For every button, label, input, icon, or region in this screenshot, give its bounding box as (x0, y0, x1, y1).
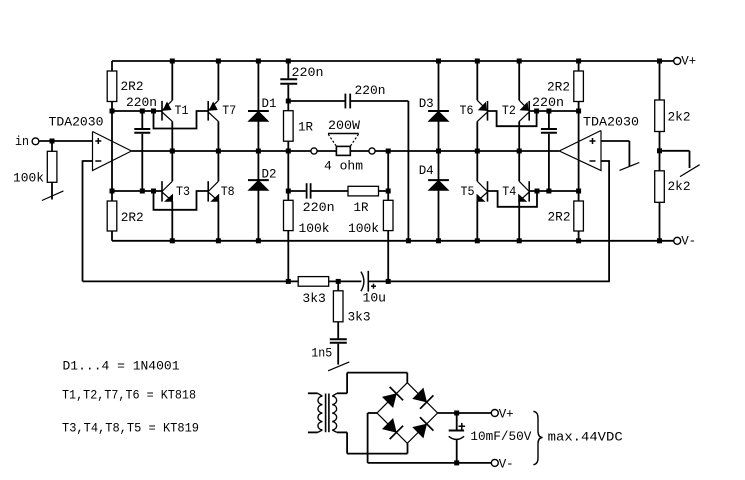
bridge diode lower-left (383, 419, 403, 439)
brace max voltage (533, 411, 622, 464)
svg-text:200W: 200W (328, 118, 360, 133)
wire zobel line (288, 100, 408, 102)
node j9 (576, 109, 581, 114)
wire feedback row (83, 280, 610, 282)
transformer TR1 core (326, 394, 329, 433)
resistor 2R2 bottom-left (107, 191, 144, 241)
op-amp U1 TDA2030 (49, 115, 132, 171)
ground slash 2k2 (680, 165, 700, 177)
transistor T1 (162, 61, 189, 151)
wire upper base row left (112, 110, 162, 112)
wire V+ top rail (112, 60, 674, 62)
transistor T4 (502, 151, 529, 241)
node V- terminal (674, 234, 697, 249)
svg-text:T8: T8 (221, 184, 235, 199)
svg-text:D2: D2 (262, 166, 277, 181)
svg-text:2R2: 2R2 (547, 80, 570, 95)
svg-text:220n: 220n (532, 95, 564, 110)
node fb j3 (386, 279, 391, 284)
node j11 (546, 189, 551, 194)
wire U2 pin column (578, 111, 580, 191)
svg-text:T1: T1 (175, 103, 189, 118)
node fb j1 (286, 279, 291, 284)
wire T7 base route (154, 111, 209, 129)
node T4 emitter junction (517, 238, 522, 243)
svg-text:220n: 220n (303, 200, 335, 215)
wire input to op-amp (39, 140, 92, 142)
wire V- bottom rail (112, 240, 674, 242)
svg-text:T1,T2,T7,T6 = KT818: T1,T2,T7,T6 = KT818 (62, 387, 196, 402)
svg-text:2R2: 2R2 (548, 210, 571, 225)
resistor 100k left (284, 200, 330, 281)
node input junction (50, 139, 55, 144)
svg-text:10mF/50V: 10mF/50V (470, 429, 531, 444)
node cap top junction (286, 59, 291, 64)
svg-text:1R: 1R (354, 200, 369, 215)
node j8 (546, 109, 551, 114)
wire secondary bottom to bridge (347, 432, 407, 453)
transformer TR1 secondary (332, 393, 347, 432)
node T8 emitter junction (216, 238, 221, 243)
node PSU minus junction (454, 460, 459, 465)
bridge diode lower-right (413, 417, 433, 437)
node T1 emitter junction (170, 59, 175, 64)
svg-text:2k2: 2k2 (668, 179, 691, 194)
svg-text:D3: D3 (419, 96, 434, 111)
node in terminal (15, 134, 39, 149)
svg-text:1n5: 1n5 (311, 346, 332, 361)
capacitor 220n zobel (345, 83, 385, 108)
resistor 1R left (284, 101, 314, 151)
svg-text:3k3: 3k3 (302, 291, 326, 306)
svg-text:V-: V- (681, 234, 696, 249)
ground slash input (42, 191, 64, 201)
capacitor 220n left (126, 95, 157, 191)
svg-text:4 ohm: 4 ohm (324, 158, 363, 173)
svg-text:T2: T2 (502, 103, 516, 118)
wire zobel down column (407, 101, 409, 241)
svg-text:1R: 1R (298, 120, 313, 135)
wire D3-D4 column (438, 61, 440, 241)
node D4 bottom junction (436, 238, 441, 243)
svg-text:100k: 100k (348, 221, 379, 236)
wire lower zobel row (288, 190, 388, 192)
capacitor 10mF/50V (449, 413, 532, 463)
speaker LS1 200W 4ohm (324, 118, 363, 173)
svg-text:2R2: 2R2 (121, 210, 144, 225)
diode D2 (248, 166, 277, 190)
node D1-D2 mid junction (256, 149, 261, 154)
node j4 (110, 189, 115, 194)
wire U1 inverting feedback (83, 160, 93, 281)
node speaker terminal left (311, 148, 317, 154)
ground slash 1n5 (328, 362, 349, 371)
node 100k-left top junction (286, 189, 291, 194)
node 1R bottom junction (286, 149, 291, 154)
node j10 (535, 189, 540, 194)
node T1 collector junction (170, 149, 175, 154)
svg-text:T5: T5 (461, 184, 475, 199)
transistor T2 (502, 61, 529, 151)
bridge rectifier diamond (377, 383, 438, 444)
node PSU plus junction (454, 411, 459, 416)
node PSU V+ terminal (491, 406, 513, 421)
node zobel left junction (286, 99, 291, 104)
node fb j2 (336, 279, 341, 284)
label pnp legend (62, 387, 196, 402)
node j2 (140, 109, 145, 114)
node V+ terminal (674, 54, 697, 69)
svg-text:D1...4 = 1N4001: D1...4 = 1N4001 (63, 359, 180, 374)
node T2 collector junction (517, 149, 522, 154)
svg-text:max.44VDC: max.44VDC (548, 429, 623, 444)
wire 100k-right column (387, 151, 389, 281)
node j5 (140, 189, 145, 194)
svg-text:220n: 220n (292, 65, 324, 80)
transistor T6 (460, 61, 488, 151)
capacitor 220n right (532, 95, 564, 191)
node speaker terminal right (369, 148, 375, 154)
capacitor 220n top-mid (280, 61, 323, 101)
node 100k-right top junction (386, 149, 391, 154)
svg-text:220n: 220n (355, 83, 386, 98)
node 2R2 TR top junction (576, 59, 581, 64)
resistor 3k3 horizontal (298, 277, 329, 306)
svg-text:V-: V- (499, 456, 514, 471)
capacitor 1n5 (311, 339, 347, 364)
node T7 emitter junction (216, 59, 221, 64)
wire lower base row left (112, 190, 162, 192)
svg-text:2R2: 2R2 (121, 79, 144, 94)
svg-text:T6: T6 (460, 103, 474, 118)
node 1R right junction (386, 189, 391, 194)
svg-text:T3: T3 (176, 184, 190, 199)
node D1 top junction (256, 59, 261, 64)
wire U1 pin column (111, 111, 113, 191)
node T7 collector junction (216, 149, 221, 154)
wire T6 base route (488, 111, 537, 126)
node PSU V- terminal (491, 456, 513, 471)
node j1 (110, 109, 115, 114)
svg-text:100k: 100k (13, 171, 44, 186)
resistor 100k right (348, 200, 393, 236)
capacitor 220n lower (303, 183, 335, 215)
capacitor 10u (361, 271, 386, 306)
node T6 collector junction (475, 149, 480, 154)
transistor T5 (461, 151, 488, 241)
svg-text:T7: T7 (222, 103, 236, 118)
node j3 (151, 109, 156, 114)
svg-text:T4: T4 (502, 184, 516, 199)
svg-text:T3,T4,T8,T5 = KT819: T3,T4,T8,T5 = KT819 (62, 420, 199, 435)
svg-text:D1: D1 (262, 96, 277, 111)
svg-text:100k: 100k (299, 221, 330, 236)
diode D3 (419, 96, 449, 121)
ground slash U2 (620, 163, 640, 171)
wire bridge minus (368, 413, 493, 463)
node j7 (534, 109, 539, 114)
resistor 2R2 top-right (547, 61, 583, 111)
resistor 3k3 vertical (333, 281, 370, 338)
node 2k2 top junction (657, 59, 662, 64)
diode D1 (248, 96, 277, 121)
wire upper base row right (529, 110, 578, 112)
label npn legend (62, 420, 199, 435)
svg-text:10u: 10u (363, 291, 387, 306)
svg-text:D4: D4 (419, 163, 434, 178)
bridge diode upper-right (413, 389, 433, 409)
resistor 1R lower (348, 186, 379, 215)
svg-text:V+: V+ (681, 54, 696, 69)
diode D4 (419, 163, 449, 190)
node D2 bottom junction (256, 238, 261, 243)
resistor 2k2 bottom (655, 171, 691, 241)
node 2k2 bottom junction (657, 238, 662, 243)
svg-text:TDA2030: TDA2030 (49, 115, 104, 130)
node T6 emitter junction (475, 59, 480, 64)
resistor 2R2 bottom-right (548, 191, 584, 241)
node T2 emitter junction (517, 59, 522, 64)
wire bridge plus (438, 412, 493, 414)
label diodes legend (63, 359, 180, 374)
wire lower base row right (529, 190, 578, 192)
node D3 top junction (436, 59, 441, 64)
wire U2 inverting feedback (601, 160, 609, 281)
bridge diode upper-left (383, 387, 403, 407)
svg-text:V+: V+ (499, 406, 514, 421)
wire D1-D2 column (257, 61, 259, 241)
resistor 2R2 top-left (107, 61, 143, 111)
wire 100k-left column (287, 151, 289, 200)
node j12 (576, 189, 581, 194)
node j6 (151, 189, 156, 194)
svg-text:in: in (15, 134, 29, 149)
wire output row (132, 150, 560, 152)
node T3 emitter junction (170, 238, 175, 243)
node 2R2 BR bottom junction (576, 238, 581, 243)
resistor 2k2 top (655, 61, 691, 171)
wire T5 base route (488, 191, 538, 207)
node D3-D4 mid junction (436, 149, 441, 154)
wire secondary top to bridge (347, 373, 407, 394)
wire U2 non-inverting to ground (601, 141, 629, 166)
resistor 100k input (13, 141, 57, 200)
transformer TR1 primary (308, 393, 322, 432)
transistor T3 (162, 151, 190, 241)
node 2k2 mid junction (657, 148, 662, 153)
svg-text:3k3: 3k3 (348, 309, 371, 324)
node zobel bottom junction (406, 238, 411, 243)
node T5 emitter junction (475, 238, 480, 243)
svg-text:2k2: 2k2 (668, 110, 691, 125)
svg-text:TDA2030: TDA2030 (583, 115, 639, 130)
transistor T8 (208, 151, 235, 241)
wire T8 base route (154, 191, 209, 210)
wire 2k2 mid to ground (660, 151, 690, 168)
transistor T7 (208, 61, 236, 151)
op-amp U2 TDA2030 (559, 115, 639, 171)
svg-text:220n: 220n (126, 95, 157, 110)
